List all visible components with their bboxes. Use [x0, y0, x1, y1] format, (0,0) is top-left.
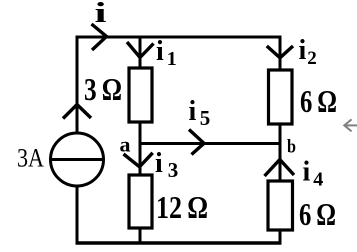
svg-text:i: i: [95, 0, 107, 29]
wire: bottom horizontal: [76, 241, 282, 245]
wire: middle horizontal a-b: [140, 142, 280, 145]
resistor R2 6ohm (top right): [269, 70, 293, 124]
svg-text:a: a: [120, 133, 132, 157]
arrow: current i3 (down): [124, 153, 153, 167]
wire: middle vertical branch: [139, 37, 142, 243]
svg-text:12 Ω: 12 Ω: [156, 189, 208, 225]
arrow: current i4 (up): [265, 160, 295, 177]
arrow: current i5 (right) on middle wire: [189, 130, 204, 155]
cursor arrow (gray, right edge): [344, 119, 357, 131]
resistor R4 6ohm (bottom right): [268, 181, 293, 230]
current source arrow (up): [63, 105, 91, 119]
wire: top horizontal: [76, 36, 282, 39]
svg-text:3 Ω: 3 Ω: [84, 71, 122, 107]
svg-text:6 Ω: 6 Ω: [299, 196, 336, 232]
current source I1 3A: [51, 133, 104, 186]
svg-text:3A: 3A: [17, 144, 44, 173]
resistor R1 3ohm: [129, 68, 152, 122]
wire: left vertical branch: [76, 36, 79, 245]
svg-text:6 Ω: 6 Ω: [300, 83, 337, 119]
arrow: current i (right) on top wire: [92, 24, 107, 50]
arrow: current i2 (down): [267, 46, 293, 58]
resistor R3 12ohm: [129, 175, 152, 228]
svg-text:b: b: [287, 137, 296, 158]
arrow: current i1 (down): [127, 42, 154, 58]
wire: right vertical branch: [279, 36, 282, 245]
